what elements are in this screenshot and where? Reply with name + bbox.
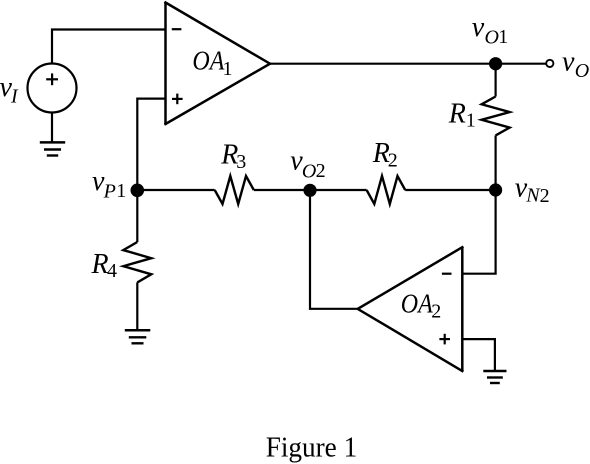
svg-text:OA: OA [401, 289, 433, 319]
wire vN2 down to OA2 inverting input [462, 190, 495, 274]
node vO1 [489, 57, 502, 70]
wire OA2 non-inverting input to ground [462, 339, 495, 371]
wire vP1 down to R4 [136, 190, 138, 242]
svg-text:2: 2 [316, 160, 326, 182]
label R2 [372, 138, 398, 171]
svg-text:I: I [10, 86, 19, 108]
node vO2 [303, 184, 316, 197]
wire R3 to vO2 [254, 189, 367, 191]
wire vP1 up to OA1 non-inverting input [137, 99, 165, 190]
wire vP1 to R3 [137, 189, 214, 191]
svg-text:1: 1 [223, 58, 233, 80]
svg-text:v: v [562, 46, 575, 77]
label vI [0, 72, 19, 108]
resistor R3 [215, 176, 254, 204]
node vP1 [131, 184, 145, 198]
wire vI top to OA1 inverting input [52, 30, 166, 64]
svg-text:R: R [91, 249, 109, 280]
label OA2 [401, 289, 442, 323]
svg-text:2: 2 [388, 149, 398, 171]
label R4 [91, 249, 118, 282]
svg-text:2: 2 [431, 300, 441, 322]
OA1 minus sign [172, 28, 182, 30]
svg-text:O: O [485, 27, 499, 49]
svg-text:3: 3 [236, 151, 246, 173]
resistor R4 [123, 242, 151, 282]
label vO2 [290, 146, 325, 183]
wire vI bottom to ground [51, 113, 53, 143]
ground below OA2 plus input [483, 371, 506, 383]
OA2 plus sign [439, 334, 450, 345]
label R1 [448, 98, 476, 131]
wire OA1 output to terminal vO [270, 63, 546, 65]
svg-text:O: O [302, 160, 316, 182]
label vO [562, 46, 589, 82]
label vN2 [515, 173, 550, 207]
ground below R4 [125, 330, 151, 343]
ground below vI [40, 142, 65, 155]
svg-text:OA: OA [192, 46, 224, 76]
svg-text:1: 1 [116, 180, 126, 202]
OA2 minus sign [442, 273, 452, 275]
label vP1 [92, 166, 126, 203]
terminal vO open circle [546, 60, 553, 67]
svg-text:2: 2 [540, 185, 550, 207]
svg-text:v: v [472, 12, 485, 43]
svg-text:R: R [448, 98, 466, 129]
svg-text:O: O [575, 60, 589, 82]
wire vO1 node down to R1 [495, 64, 497, 97]
wire R2 to vN2 [405, 189, 495, 191]
resistor R2 [367, 176, 406, 204]
svg-text:1: 1 [498, 26, 508, 48]
OA1 plus sign [172, 94, 183, 105]
voltage source vI [28, 64, 77, 113]
label R3 [220, 140, 246, 174]
op-amp U2 (OA2) triangle [358, 247, 463, 371]
resistor R1 [482, 97, 510, 136]
svg-text:4: 4 [107, 260, 117, 282]
op-amp U1 (OA1) triangle [166, 3, 271, 125]
svg-text:P: P [103, 181, 116, 203]
svg-text:1: 1 [466, 110, 476, 132]
node vN2 [489, 183, 502, 196]
label OA1 [192, 46, 232, 81]
svg-text:Figure 1: Figure 1 [266, 433, 358, 464]
wire vO2 down and right to OA2 output [310, 190, 358, 309]
label vO1 [472, 12, 509, 49]
wire R1 to node vN2 [495, 135, 497, 190]
wire R4 to ground [136, 282, 138, 330]
